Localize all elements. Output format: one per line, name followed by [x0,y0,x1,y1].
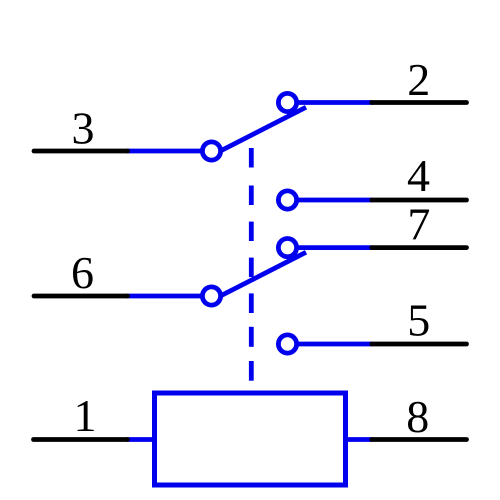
svg-text:7: 7 [407,199,430,250]
svg-text:1: 1 [74,390,97,441]
svg-text:5: 5 [407,295,430,346]
svg-text:4: 4 [407,150,430,201]
svg-text:3: 3 [72,102,95,153]
svg-text:6: 6 [71,247,94,298]
svg-text:2: 2 [407,54,430,105]
svg-text:8: 8 [406,391,429,442]
